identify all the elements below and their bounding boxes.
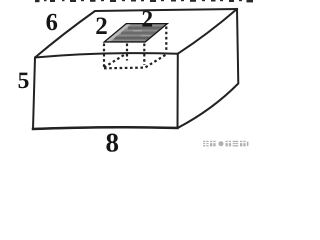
svg-text:5: 5 (18, 68, 30, 94)
svg-text:8: 8 (106, 128, 120, 155)
svg-text:6: 6 (46, 9, 58, 36)
svg-text:2: 2 (141, 7, 153, 33)
svg-text:2: 2 (95, 13, 108, 40)
